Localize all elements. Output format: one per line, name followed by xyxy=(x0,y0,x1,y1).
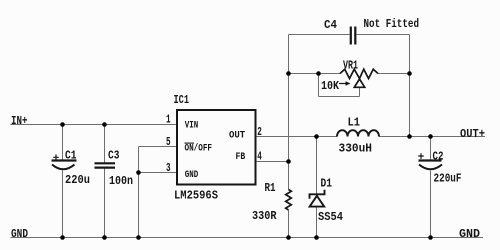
capacitor C2 curved plate xyxy=(419,165,442,170)
node FB junction xyxy=(286,159,291,164)
node pin3 junction xyxy=(136,170,141,175)
node GND/D1 xyxy=(314,235,319,240)
wire GND bottom rail xyxy=(11,237,484,239)
svg-text:OUT+: OUT+ xyxy=(460,127,485,141)
svg-text:220u: 220u xyxy=(65,173,90,187)
wire C4 right xyxy=(357,34,410,36)
diode D1 schottky cathode bar xyxy=(310,190,325,199)
node VR1 right/OUT xyxy=(407,134,412,139)
svg-text:C3: C3 xyxy=(108,149,120,163)
svg-text:FB: FB xyxy=(236,151,246,163)
wire vertical x409 to OUT+ xyxy=(409,35,411,137)
wire pin3 GND xyxy=(139,172,178,174)
wire C1 vertical bottom xyxy=(62,171,64,238)
wire FB node down to R1 xyxy=(288,162,290,190)
wire vertical x138 to ground xyxy=(138,147,140,238)
node GND/R1 xyxy=(286,235,291,240)
wire C1 vertical top xyxy=(62,125,64,161)
wire D1 anode to ground xyxy=(316,207,318,238)
node D1/OUT xyxy=(314,134,319,139)
diode D1 triangle xyxy=(310,196,325,207)
node GND/IC xyxy=(136,235,141,240)
inductor L1 humps xyxy=(337,130,379,136)
potentiometer VR1 zigzag xyxy=(340,69,378,78)
wire C2 vertical top xyxy=(430,137,432,161)
potentiometer VR1 wiper triangle xyxy=(354,79,364,87)
capacitor C3 plates xyxy=(95,163,116,167)
svg-text:5: 5 xyxy=(166,135,171,149)
capacitor C1 curved plate xyxy=(52,165,75,170)
potentiometer VR1 wiper arrow xyxy=(339,83,347,85)
wire L1 to OUT+ xyxy=(379,136,485,138)
wire C3 vertical top xyxy=(104,125,106,163)
wire C2 vertical bottom xyxy=(430,171,432,238)
capacitor C1 plate xyxy=(52,159,77,161)
node GND/C3 xyxy=(102,235,107,240)
svg-text:IC1: IC1 xyxy=(174,93,190,107)
svg-text:100n: 100n xyxy=(109,174,133,188)
svg-text:OUT: OUT xyxy=(229,130,245,142)
pin name ON overline xyxy=(185,142,195,144)
capacitor C1 plus sign xyxy=(53,155,59,161)
op-amp U1 box IC1 LM2596S xyxy=(177,110,256,185)
capacitor C2 plus sign xyxy=(418,153,424,159)
resistor R1 zigzag xyxy=(286,190,292,211)
svg-text:330uH: 330uH xyxy=(339,142,373,156)
svg-text:Not Fitted: Not Fitted xyxy=(364,17,420,31)
wire C4 left xyxy=(289,34,350,36)
wire VR1 left xyxy=(289,73,341,75)
wire VR1 wiper loop up xyxy=(318,74,320,97)
svg-text:VR1: VR1 xyxy=(343,59,358,73)
svg-text:C1: C1 xyxy=(65,149,77,163)
svg-text:VIN: VIN xyxy=(185,120,199,132)
node VR1 left xyxy=(286,71,291,76)
svg-text:1: 1 xyxy=(166,113,171,127)
svg-text:ON/OFF: ON/OFF xyxy=(185,143,213,155)
wire VR1 wiper loop horizontal xyxy=(319,96,360,98)
svg-text:4: 4 xyxy=(257,150,262,164)
wire C3 vertical bottom xyxy=(104,168,106,237)
svg-text:C4: C4 xyxy=(324,18,337,32)
capacitor C2 plate xyxy=(419,159,442,161)
node C2/OUT xyxy=(428,134,433,139)
svg-text:IN+: IN+ xyxy=(11,114,28,128)
wire IN+ top rail xyxy=(11,124,178,126)
wire FB node vertical up x288 xyxy=(288,35,290,162)
node IN+/C1 xyxy=(60,122,65,127)
svg-text:220uF: 220uF xyxy=(434,172,462,186)
svg-text:R1: R1 xyxy=(265,181,276,195)
svg-text:330R: 330R xyxy=(252,209,277,223)
wire FB pin4 xyxy=(256,161,289,163)
wire VR1 wiper drop xyxy=(359,87,361,96)
wire pin5 ON/OFF xyxy=(139,146,178,148)
svg-text:GND: GND xyxy=(459,227,480,241)
svg-text:2: 2 xyxy=(257,125,262,139)
node GND/C2 xyxy=(428,235,433,240)
svg-text:3: 3 xyxy=(166,161,171,175)
svg-text:GND: GND xyxy=(185,169,199,181)
wire R1 to ground xyxy=(288,210,290,238)
node GND/C1 xyxy=(60,235,65,240)
svg-text:SS54: SS54 xyxy=(318,210,343,224)
svg-text:LM2596S: LM2596S xyxy=(174,189,218,203)
svg-text:L1: L1 xyxy=(348,116,361,130)
node IN+/C3 xyxy=(102,122,107,127)
wire VR1 right xyxy=(378,73,410,75)
capacitor C4 plates xyxy=(351,27,356,45)
svg-text:C2: C2 xyxy=(433,150,444,164)
svg-text:GND: GND xyxy=(11,227,28,241)
node VR1 right xyxy=(407,71,412,76)
svg-text:10K: 10K xyxy=(321,79,340,93)
node VR1 wiper tie xyxy=(316,71,321,76)
wire OUT pin2 to L1 xyxy=(256,136,338,138)
wire D1 cathode xyxy=(316,137,318,195)
svg-text:D1: D1 xyxy=(321,177,333,191)
